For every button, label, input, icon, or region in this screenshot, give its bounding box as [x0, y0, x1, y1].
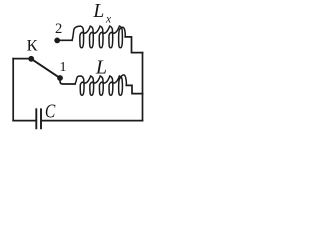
wire: left rail [12, 59, 14, 121]
switch K pivot junction dot [28, 56, 34, 62]
svg-text:x: x [105, 13, 112, 25]
wire: right rail [142, 53, 144, 121]
svg-text:L: L [92, 1, 104, 22]
inductor Lx winding [72, 26, 125, 48]
wire: top branch step from rail to inductor Lx exit [125, 37, 142, 53]
wire: inductor L exit step to right rail [126, 85, 142, 93]
contact node 1 dot [57, 75, 63, 81]
wire: switch pivot to top-left corner [13, 58, 31, 60]
svg-text:2: 2 [55, 21, 62, 37]
svg-text:1: 1 [60, 60, 67, 75]
svg-text:L: L [95, 57, 107, 79]
wire: capacitor to bottom-right corner [42, 120, 143, 122]
wire: contact 1 to inductor L entry [60, 79, 75, 85]
svg-text:C: C [45, 101, 56, 123]
svg-text:К: К [27, 36, 38, 55]
switch K blade [31, 59, 60, 78]
inductor L winding [75, 75, 126, 95]
capacitor C right plate [40, 109, 42, 128]
capacitor C left plate [35, 109, 37, 128]
wire: bottom-left corner to capacitor [13, 120, 35, 122]
wire: contact 2 to inductor Lx entry [57, 39, 72, 41]
contact node 2 dot [54, 38, 60, 44]
